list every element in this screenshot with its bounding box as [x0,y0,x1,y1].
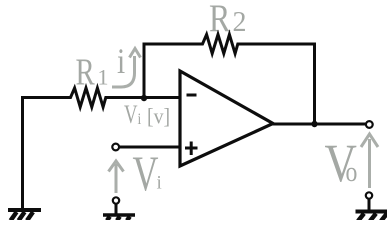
svg-text:[v]: [v] [147,104,170,129]
svg-text:o: o [346,155,358,188]
svg-text:i: i [117,42,125,81]
svg-text:i: i [138,111,142,128]
svg-text:R: R [209,0,231,40]
svg-text:V: V [124,100,138,129]
svg-text:i: i [157,173,162,194]
svg-text:V: V [133,146,159,201]
svg-text:1: 1 [98,65,109,90]
svg-text:2: 2 [233,7,247,38]
